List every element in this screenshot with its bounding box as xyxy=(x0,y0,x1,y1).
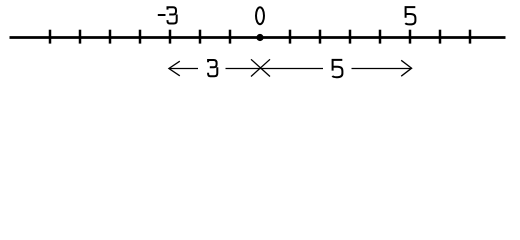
point at 0 xyxy=(256,34,263,41)
tick 10 xyxy=(319,30,322,44)
number line xyxy=(10,36,506,39)
label minus of -3 xyxy=(158,14,166,16)
right arrow shaft xyxy=(352,68,411,70)
tick 14 xyxy=(439,30,442,44)
tick 1 xyxy=(49,30,52,44)
middle shaft xyxy=(226,68,324,70)
label 0 xyxy=(256,7,264,24)
tick 11 xyxy=(349,30,352,44)
distance label 5 xyxy=(332,60,342,77)
right arrowhead xyxy=(401,60,411,76)
tick 9 xyxy=(289,30,292,44)
tick 7 xyxy=(229,30,232,44)
tick 3 xyxy=(109,30,112,44)
tick 13 at value 5 xyxy=(409,30,412,44)
left arrow shaft xyxy=(170,68,198,70)
tick 15 xyxy=(469,30,472,44)
left arrowhead xyxy=(169,61,180,76)
tick 6 xyxy=(199,30,202,44)
cross mark at 0 xyxy=(251,59,270,76)
label digit 3 of -3 xyxy=(168,7,177,23)
tick 2 xyxy=(79,30,82,44)
tick 12 xyxy=(379,30,382,44)
tick 5 at value -3 xyxy=(169,30,172,44)
tick 4 xyxy=(139,30,142,44)
distance label 3 xyxy=(208,60,217,76)
label 5 above tick xyxy=(405,7,415,24)
